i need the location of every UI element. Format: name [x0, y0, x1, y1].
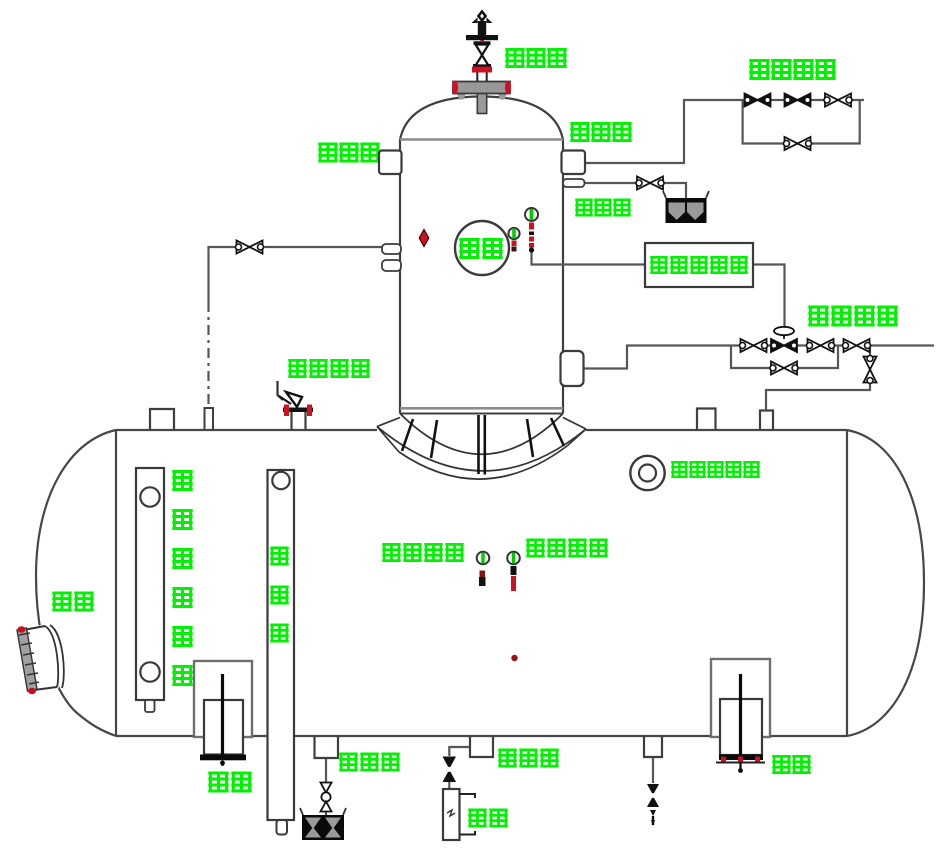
right drain valve	[647, 784, 659, 826]
bottom nozzle drain	[315, 736, 339, 758]
tank manhole left	[17, 621, 71, 694]
wire: heating steam bypass	[731, 346, 838, 369]
tank top nozzle B (balance line)	[205, 408, 214, 430]
water use valve	[443, 757, 457, 783]
weld seam top	[400, 138, 563, 141]
pressure transmitter box	[645, 243, 753, 287]
control valve actuator	[774, 327, 794, 339]
label: yali biaokou	[382, 543, 463, 562]
label: wendu biaokou	[526, 539, 607, 558]
wire: balance line left	[209, 247, 383, 302]
label: yali biansongqi	[650, 256, 747, 274]
label: ruanhuashui right	[570, 122, 631, 142]
valve: level loop 2	[785, 94, 811, 107]
label: shuifengtong (vertical)	[270, 547, 288, 643]
vent valve	[476, 45, 489, 66]
horizontal deaerated-water tank shell	[36, 430, 924, 736]
label: paiwukou	[575, 199, 630, 217]
nozzle: heating steam	[561, 351, 584, 386]
small gauge fitting 1	[508, 228, 519, 252]
water seal tube	[268, 470, 295, 835]
wire: right drain drop	[652, 757, 654, 783]
left support	[194, 661, 252, 766]
wire: heating steam drop to tank	[766, 346, 870, 412]
vent stack pipe	[477, 73, 486, 82]
label: ruanhuashui left	[318, 143, 379, 163]
PIPES	[209, 100, 935, 815]
red diamond fitting	[419, 230, 429, 247]
deaerator skirt mask	[377, 414, 586, 480]
level gauge	[136, 468, 164, 712]
nozzle: left stub 2	[382, 260, 401, 271]
red dot on tank	[511, 655, 517, 661]
vent flange red	[472, 67, 492, 73]
valve: steam line 2	[807, 339, 835, 352]
nozzle: left stub 1	[382, 244, 401, 254]
control valve: steam	[771, 339, 797, 352]
label: yongshuikou	[498, 749, 558, 768]
drain funnel	[300, 808, 346, 840]
temperature gauge port	[507, 552, 520, 591]
label: renkong tower	[459, 238, 502, 259]
blowdown funnel	[663, 191, 709, 223]
valve: blowdown	[636, 177, 664, 190]
valve: steam line 1	[740, 339, 768, 352]
label: zhizuo left	[208, 772, 251, 793]
valve: balance line	[236, 241, 264, 254]
tank top nozzle D (steam inlet)	[760, 411, 773, 431]
wire: heating steam from tower	[584, 346, 934, 369]
exhaust head	[466, 10, 498, 41]
label: shuiwei tiaojie	[749, 59, 835, 80]
wire: transmitter to control valve	[753, 265, 785, 328]
valve: level loop 3	[824, 94, 852, 107]
sampler vessel	[443, 789, 475, 840]
high level connection	[630, 456, 664, 490]
tank top nozzle A	[150, 409, 174, 430]
nozzle: softened water left	[379, 151, 402, 175]
deaerator tower shell	[400, 97, 563, 414]
wire: blowdown line	[585, 183, 687, 199]
label: anquanfakou	[288, 359, 369, 378]
valve: steam drop (vertical)	[864, 356, 877, 384]
right support	[711, 659, 770, 773]
label: gaoshuiwei jieguan	[671, 461, 759, 478]
drain valve left bottom	[321, 783, 332, 812]
nozzle: softened water right	[562, 151, 586, 175]
pressure gauge port	[477, 552, 490, 586]
wire: sample drop	[448, 782, 450, 789]
wire: transmitter sense line	[532, 251, 646, 265]
skirt ribs	[402, 415, 564, 475]
label: fangshuikou	[339, 753, 399, 772]
wire: level-regulating loop	[743, 100, 860, 144]
wire: softened water right riser	[585, 100, 864, 163]
top flange on dome	[452, 81, 511, 114]
bottom nozzle water-use	[470, 736, 493, 757]
label: paiqikou (vent)	[505, 48, 566, 68]
bottom nozzle right drain	[644, 736, 662, 757]
tank left head	[36, 430, 116, 736]
small gauge fitting 2	[525, 208, 538, 253]
wire: drain drop left	[325, 758, 327, 815]
manhole on tower	[455, 221, 509, 275]
label: renkong tank	[52, 592, 93, 612]
valve: steam bypass	[770, 362, 798, 375]
safety valve	[278, 381, 314, 430]
deaerator bottom dish	[400, 414, 563, 455]
wire: water-use line	[449, 747, 470, 756]
tank right head	[847, 430, 924, 736]
label: zhizuo right	[772, 755, 810, 774]
tank top nozzle C	[697, 409, 716, 431]
label: ciweiban shuiweiji (vertical)	[172, 470, 192, 686]
valve: steam line 3	[843, 339, 871, 352]
label: quyang	[468, 809, 507, 828]
valve: level loop 1	[745, 94, 771, 107]
skirt band	[377, 418, 586, 480]
wire: balance line dashed drop	[207, 302, 209, 408]
valve: level bypass	[784, 137, 812, 150]
weld seam bottom	[400, 407, 563, 410]
nozzle: blowdown stub	[563, 179, 585, 187]
label: jiare zhengqi	[808, 306, 897, 327]
